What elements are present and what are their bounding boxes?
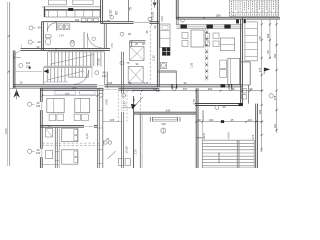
- svg-text:260: 260: [208, 87, 213, 91]
- wall left-wing north (double y=88.3): [40, 88, 159, 90]
- door handle circle bath: [92, 37, 95, 40]
- text 100 terrace: [161, 122, 166, 126]
- wall vertical x=128.6: [128, 0, 130, 22]
- rotated text corridor upper 2: [122, 101, 126, 107]
- shaft upper (hatched): [130, 47, 144, 61]
- schedule table (window/door list, vertical labels): [229, 0, 278, 16]
- wall stairs west approach: [196, 137, 202, 139]
- bed C: [62, 128, 78, 141]
- svg-text:+0,00: +0,00: [151, 12, 155, 21]
- door marker circle entry: [19, 62, 31, 69]
- rotated text +0,00 lower: [227, 132, 231, 139]
- boundary length text (rotated): [4, 128, 8, 134]
- ramp diagonal: [108, 151, 116, 159]
- staircase lower-right (steps): [202, 140, 254, 168]
- wall stub x=56.7: [56, 22, 58, 31]
- text 1,05 south wall: [144, 82, 149, 85]
- dim circle right: [269, 94, 273, 98]
- svg-text:275: 275: [258, 67, 262, 72]
- text 180 under counter: [75, 19, 80, 22]
- wall L at shaft: [130, 41, 146, 47]
- kitchen sink (dark): [69, 8, 74, 10]
- wire dashed x=118.2: [117, 91, 119, 122]
- nightstand A1: [49, 114, 56, 121]
- rotated text 2,75 terrace east: [192, 99, 196, 105]
- wire dashed axis x=151.8: [151, 0, 153, 26]
- svg-text:2,75: 2,75: [192, 99, 196, 105]
- kitchen counter with cabinet divisions: [45, 11, 100, 17]
- svg-text:450: 450: [273, 53, 277, 58]
- bathroom text: [58, 34, 64, 38]
- text rotated x=155.5: [153, 25, 157, 28]
- chair 4: [205, 41, 210, 46]
- svg-text:2,25: 2,25: [152, 55, 156, 61]
- dimension line y=121.7 left part: [103, 118, 122, 122]
- svg-text:90: 90: [37, 25, 41, 29]
- svg-text:450: 450: [259, 147, 263, 152]
- door marker circle hall mid: [120, 61, 130, 65]
- terrace label (rotated): [201, 110, 205, 122]
- rotated text 18x17: [203, 132, 206, 139]
- svg-text:240: 240: [102, 75, 107, 78]
- text 105 under stairs wall: [72, 87, 77, 90]
- svg-text:60: 60: [115, 11, 119, 15]
- rotated text 17x18: [125, 146, 129, 154]
- rotated text right misc 1: [258, 67, 262, 72]
- railing / glass partition (dashed with posts): [205, 29, 208, 82]
- toilet: [45, 35, 51, 45]
- wire dashed x=140.3 upper: [139, 93, 141, 114]
- door marker circles north wall: [181, 15, 236, 22]
- wall kitchen north (y=9.7): [44, 9, 101, 11]
- door marker circle bath south: [28, 40, 41, 44]
- text 16 near wall: [20, 82, 23, 85]
- wire threshold y=107.8: [122, 107, 134, 109]
- wall stairs east (double x=255.7): [256, 104, 258, 168]
- wall entry south (double y=48.6 west part): [21, 49, 42, 51]
- rotated text right misc 4: [258, 109, 262, 114]
- level text +0,00 (rotated): [151, 12, 155, 21]
- svg-text:2,90: 2,90: [109, 10, 113, 17]
- wire dashed beam y=143.1: [42, 143, 100, 146]
- text 1,05: [104, 19, 110, 23]
- nightstand B2: [82, 114, 89, 121]
- svg-text:2,90: 2,90: [160, 16, 164, 22]
- wall corner x=176.3 lower: [175, 71, 177, 85]
- wire site boundary line (double vertical, west edge): [8, 2, 10, 166]
- nightstand 1: [220, 60, 227, 68]
- text 75: [129, 7, 133, 11]
- wall hall east x=107.2: [106, 72, 108, 89]
- closet boxes left: [46, 128, 53, 158]
- wall x=176.3 (double): [176, 0, 178, 25]
- svg-text:100: 100: [161, 122, 166, 126]
- chair 3: [205, 34, 210, 39]
- wire dashed x=127: [126, 91, 128, 122]
- svg-text:1,05: 1,05: [144, 82, 149, 85]
- rotated text near arrow: [133, 98, 136, 101]
- wire closet lines x=55-59: [42, 152, 59, 165]
- svg-text:75: 75: [129, 7, 133, 11]
- door marker circle terrace: [215, 105, 226, 109]
- rotated text above stairs: [56, 47, 59, 52]
- cabinet pantry: [160, 24, 170, 47]
- staircase upper flights with step lines and direction arrows: [43, 52, 104, 85]
- svg-text:245: 245: [166, 108, 171, 112]
- wall bathroom north continue (y=21.7 west): [42, 21, 101, 23]
- wire eave line y=6.8: [42, 6, 101, 8]
- svg-text:0,90: 0,90: [104, 99, 108, 105]
- rotated text right misc 2: [266, 50, 270, 53]
- boundary tick 1: [8, 35, 11, 37]
- door arc stairs to hall: [74, 70, 88, 84]
- door marker circle west 2: [28, 149, 41, 155]
- bed D: [62, 150, 78, 164]
- svg-text:TERASZ: TERASZ: [201, 110, 205, 122]
- closet column east (x=97.5): [98, 88, 103, 168]
- nightstand B1: [74, 114, 80, 121]
- room label circle (149.8,19): [148, 17, 152, 21]
- svg-text:+0,00: +0,00: [227, 132, 231, 139]
- skylight rectangle A (top): [48, 0, 66, 5]
- svg-text:160: 160: [209, 118, 214, 122]
- svg-text:105: 105: [72, 87, 77, 90]
- rotated text stairs 17x18: [98, 58, 101, 65]
- hall marker circle: [120, 32, 131, 36]
- text rotated kitchen: [152, 55, 156, 61]
- svg-text:307: 307: [183, 87, 188, 91]
- shaft lower (hatched): [128, 67, 143, 83]
- wire fence line to building (west): [10, 87, 41, 89]
- section arrow (black, mid plan): [131, 97, 143, 109]
- door arc bathroom entry: [47, 23, 56, 32]
- wardrobe sideboard: [220, 38, 234, 51]
- door marker circle west 1: [28, 102, 41, 108]
- wall x=157.4 (double, full): [157, 0, 159, 87]
- svg-text:17x17x29: 17x17x29: [218, 152, 221, 164]
- bidet: [70, 40, 75, 46]
- wardrobe strip: [55, 91, 95, 95]
- rotated text 450 right-bottom: [259, 147, 263, 152]
- svg-text:5,00: 5,00: [4, 128, 8, 134]
- stove (dark): [162, 48, 170, 56]
- wall east (double x=240.6): [241, 19, 243, 105]
- wall west living (double x=13.3): [13, 50, 15, 88]
- wall kitchen south (double y=70.9): [157, 71, 176, 72]
- wall terrace north (double y=112.2): [134, 108, 197, 114]
- skylight rectangle B (top): [73, 0, 93, 5]
- svg-text:290: 290: [216, 13, 221, 17]
- dim mark group corridor: [103, 138, 111, 146]
- svg-text:45: 45: [230, 118, 234, 122]
- wall x=133.6: [133, 96, 135, 168]
- dimension line y=90.7 with ticks and numbers: [133, 87, 263, 92]
- text rotated 45 shaft: [145, 30, 149, 33]
- wall living north (double y=17.3): [176, 17, 280, 19]
- nightstand 2: [220, 69, 227, 77]
- bed B: [75, 98, 90, 112]
- closet divider y=110.3: [98, 109, 103, 111]
- shaft texts: [135, 43, 145, 66]
- svg-text:1,74: 1,74: [110, 43, 114, 49]
- wall hall west (double x=104.3): [104, 23, 106, 48]
- wall vertical x=100.6 (double): [101, 0, 103, 23]
- wall y=103.5 (double): [195, 103, 243, 106]
- room label circle (112,17.3): [110, 15, 114, 19]
- dim ticks row y=85.6: [129, 82, 132, 85]
- north arrow symbol: [13, 89, 19, 100]
- wall divider y=125.4 (double): [40, 125, 97, 127]
- wc fixtures: [242, 89, 247, 99]
- door marker circle south: [173, 87, 233, 91]
- wall west of kitchen (x=44.5): [43, 7, 45, 17]
- svg-text:275: 275: [251, 134, 255, 139]
- svg-text:105: 105: [108, 82, 113, 85]
- rotated text strip 2,75: [133, 149, 137, 155]
- dimension line rooms y=95.6: [41, 92, 98, 97]
- hall rotated text: [110, 43, 114, 49]
- stove burner squares: [82, 18, 99, 22]
- svg-text:5,40: 5,40: [85, 133, 89, 139]
- right edge dimension chains (vertical): [258, 19, 278, 150]
- wire jamb extension x=21.2: [20, 45, 22, 49]
- svg-text:160: 160: [258, 109, 262, 114]
- wall left-wing west (double x=40.4): [40, 88, 43, 168]
- svg-text:60: 60: [231, 87, 235, 91]
- wire dashed axis x=150.2: [149, 26, 151, 85]
- text 290 dimension: [177, 13, 243, 19]
- wall bathroom west (double x=41.6, hatched): [42, 22, 44, 51]
- dimension text 2,90 (rotated): [109, 10, 113, 17]
- svg-text:110: 110: [248, 118, 253, 122]
- door marker circle (31,27.9): [29, 25, 41, 30]
- text rotated x=117: [115, 11, 119, 15]
- wall bits WC: [241, 62, 251, 104]
- wire line y=71.6: [15, 71, 42, 73]
- washbasin pair: [58, 24, 70, 30]
- bed A: [47, 98, 64, 112]
- dining table: [191, 30, 204, 47]
- svg-text:17x18: 17x18: [125, 146, 129, 154]
- rotated text 275: [251, 134, 255, 139]
- stair text (rotated): [218, 152, 221, 164]
- text 105 hall: [108, 82, 113, 85]
- wall x=140.3 lower: [140, 114, 142, 168]
- box pair bottom corridor: [119, 158, 131, 165]
- svg-text:275: 275: [273, 95, 277, 100]
- closet shelves east wall: [245, 22, 257, 61]
- chair 1: [182, 33, 188, 39]
- text 90 above entry wall: [37, 46, 40, 49]
- door marker circle corridor: [99, 93, 126, 97]
- svg-text:2,75: 2,75: [133, 149, 137, 155]
- door arc bathroom to hall: [87, 33, 101, 47]
- nightstand A2: [57, 114, 64, 121]
- svg-text:745: 745: [65, 92, 70, 96]
- boundary tick 2: [8, 70, 11, 72]
- wall x=55.3 (double lower): [55, 127, 59, 168]
- svg-text:110: 110: [273, 123, 277, 128]
- wall bathroom south (double y=48.6, hatched): [42, 49, 110, 51]
- door marker circle hall: [95, 71, 107, 78]
- text 90 south wall: [184, 82, 187, 85]
- svg-text:240: 240: [36, 105, 41, 108]
- wall stairs south (double y=84.8 left segment): [13, 68, 159, 87]
- threshold line y=57.6: [13, 57, 20, 59]
- svg-text:105: 105: [110, 118, 115, 122]
- terrace bench: [150, 117, 180, 122]
- chair 2: [182, 41, 188, 47]
- partition x=84: [83, 32, 85, 49]
- wire stair left edge above: [201, 122, 203, 141]
- svg-text:1,74: 1,74: [58, 34, 64, 38]
- svg-text:240: 240: [36, 152, 41, 155]
- svg-text:90: 90: [249, 87, 253, 91]
- bed east room: [228, 58, 240, 84]
- rotated text left corridor: [85, 133, 89, 139]
- door type marker circle 1: [161, 128, 166, 134]
- svg-text:17x18: 17x18: [98, 58, 101, 65]
- svg-text:1,05: 1,05: [104, 19, 110, 23]
- svg-text:1,05: 1,05: [189, 62, 193, 68]
- wall band with window piers (y=24.8): [176, 25, 242, 29]
- armchair 1: [213, 33, 219, 39]
- wall corridor north (double, y=21.7): [101, 22, 160, 24]
- level marker +0,00 (black): [153, 0, 157, 8]
- svg-text:2,25: 2,25: [122, 101, 126, 107]
- kitchen sink unit: [160, 62, 166, 68]
- armchair 2: [213, 41, 219, 47]
- rotated text right misc 3: [273, 123, 277, 128]
- pier dark top east: [236, 20, 245, 23]
- wall living south (double y=84.8): [159, 84, 242, 89]
- dimension line y=121.7 with ticks and numbers: [195, 118, 263, 123]
- rotated text corridor upper: [104, 99, 108, 105]
- wall corridor x=121.6 (double): [122, 52, 124, 168]
- flag symbol (section mark): [264, 68, 270, 75]
- room label text (rotated): [189, 62, 193, 68]
- svg-text:160: 160: [266, 33, 270, 38]
- wall x=196.2 (double): [196, 88, 198, 168]
- closet labels: [48, 125, 51, 128]
- text rotated kitchen top: [160, 16, 164, 22]
- door arc entrance: [14, 51, 21, 59]
- svg-text:18x17: 18x17: [203, 132, 206, 139]
